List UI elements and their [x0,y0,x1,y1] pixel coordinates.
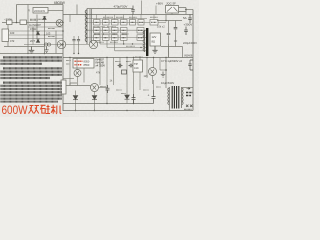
relay J1 [166,6,179,14]
protection box [73,59,94,69]
transformer T1 primary winding [86,9,88,45]
svg-text:600W: 600W [2,103,28,117]
svg-text:2CT: 2CT [30,39,35,43]
label red protect line2 [75,64,83,66]
wire x153.5 from y67.5 [153,80,155,90]
resistor R10 [138,20,144,26]
transformer T3 secondary [181,87,183,108]
small dark box [122,70,127,74]
fuse box left tall [2,29,9,42]
wire rung y38.5 [9,38,64,40]
wire top-left vertical drop [16,5,18,23]
svg-text:IN5408: IN5408 [184,54,193,58]
wire header y20.5 [157,20,182,22]
wire left vertical x8 [7,25,9,47]
box TIP41 [133,60,143,72]
wire vertical rail x63 [62,5,64,112]
label under electrodes [184,108,192,110]
wire T3 output top [182,87,193,89]
node dots on rail x63 [62,22,64,24]
node AC junction [16,22,18,24]
diode D2 mid [36,32,39,35]
instruction text block [1,57,63,101]
capacitor C1 [72,40,75,41]
node T1 bus dot [86,14,88,16]
paper noise overlay [0,0,199,117]
wire right rail x193 [192,10,194,111]
svg-text:+300V: +300V [184,23,193,27]
svg-text:5A: 5A [183,16,187,20]
resistor R6 [103,20,110,26]
wire T3 primary bottom [168,108,170,111]
label 13007 [126,45,135,47]
svg-text:8Ω: 8Ω [152,40,156,44]
capacitor C4 [121,28,128,34]
bus y110 bottom [63,110,193,112]
node dots T1 taps [86,18,87,19]
node dots rail y57 [69,57,70,58]
resistor R19 [112,35,119,41]
capacitor C11 [106,85,110,93]
wire through R1 [48,10,63,12]
wire bias y78.5 [63,78,74,80]
transistor Q5 [74,70,81,77]
node dots y53.5 [27,53,28,54]
AC terminal block 2 [20,20,27,25]
capacitor C12 [132,94,136,104]
ladder vertical x33 [32,27,34,45]
wire y85 [66,83,91,86]
transistor Q3 [149,68,157,76]
resistor R12 [94,28,101,34]
capacitor C2 [77,40,80,41]
ladder vertical x37 [36,15,38,39]
label red protect line1 [75,60,83,62]
wire to right rail [186,9,193,11]
wire rung y27 [28,26,63,28]
node dots stub bottoms [73,53,74,54]
node dots L-nest [123,43,124,44]
resistor R18 [103,35,110,41]
wire rung y31 [9,30,64,32]
wire Q4 to C11 [99,87,108,89]
wire top-left horizontal [17,4,64,6]
resistor R1 box [33,8,48,14]
node x166 y70 [165,69,167,71]
output arrow plus [187,88,191,90]
capacitor C14 right rail [188,60,193,70]
transistor Q1 [56,20,63,27]
wire relay to node [172,8,186,15]
svg-text:10k x2: 10k x2 [157,25,165,29]
ground symbol left [29,47,35,54]
wire y70 link [160,69,166,71]
svg-text:68Ω8W: 68Ω8W [54,1,65,5]
resistor R11 [150,20,158,26]
resistor R17 [94,35,101,41]
capacitor C7 [184,27,188,36]
title glyph ji [51,105,61,114]
label dashes above row A [103,16,158,18]
svg-text:220μF400V: 220μF400V [183,41,197,45]
component grid row B [94,28,145,34]
rail y57 [63,57,193,59]
transformer T2 core bar [146,28,148,56]
wire x166 down to T3 [165,58,167,89]
node relay [185,9,187,11]
branch wire x175.5 [175,21,177,47]
svg-text:41C: 41C [134,66,139,70]
transformer T1 tap y8.5 [87,8,133,10]
svg-text:470μF50V: 470μF50V [114,5,128,9]
output electrode marks [186,105,192,107]
wire rung y44.5 [24,44,63,46]
wire Q5 links [77,62,84,86]
transistor Q2b [89,40,97,48]
capacitor C13 polarized [152,90,156,104]
resistor R5 [94,20,101,26]
diode D2b [36,39,39,42]
potentiometer box [61,80,66,94]
resistor R20 [137,35,144,41]
resistor R13 [103,28,110,34]
label smudges extra [93,26,116,28]
svg-text:C7 0.1μF630V x2: C7 0.1μF630V x2 [161,59,182,63]
wire row C [87,37,146,39]
svg-text:1k5: 1k5 [144,74,149,78]
grid box value smudges [95,21,99,23]
wire Q3 drop [152,76,154,85]
wire double vertical x168.5 [168,44,170,58]
resistor R14 [112,28,119,34]
capacitor C6 right [188,15,192,24]
diode D5 [125,95,130,99]
node x166 y20.5 [165,20,167,22]
transformer T3 primary [168,87,170,108]
label above rung y22 [30,18,43,20]
svg-text:103: 103 [10,31,15,35]
ladder vertical x56 [55,31,57,54]
diode D4 [92,96,97,100]
ground symbol under T2 [152,46,157,53]
svg-text:x4 350V: x4 350V [96,64,106,68]
ladder vertical x44.5 [44,16,46,54]
wire L-nest y44 [100,40,147,51]
resistor R9 [130,20,136,26]
bus y103 [63,103,154,105]
transistor Q4 [91,84,99,92]
capacitor C3 on x133 [131,6,135,15]
stub verticals with caps x74-79 [74,36,79,54]
capacitor C9 [118,64,123,68]
ground symbol near x165 [161,72,165,78]
svg-text:+: + [148,94,150,98]
svg-text:+80V: +80V [156,2,163,6]
wire vertical x77 top [76,5,78,15]
ladder vertical x28 [27,5,29,54]
capacitor C10 [129,64,134,68]
wire y46 right link [161,47,183,58]
wire row A [87,22,166,24]
small circles pair on rung [44,43,47,46]
wire bottom-left y53.5 [0,53,63,55]
svg-text:472: 472 [10,39,15,43]
transformer T1 tap y18.5 [87,18,147,20]
wire vertical x141.5 top [141,1,143,15]
branch wire x168.5 [168,21,170,58]
wire vertical x166 [165,15,167,21]
component grid row C [94,35,145,41]
transistor Q2 [57,40,65,48]
wire AC row y22 [2,22,63,24]
capacitor C8a [167,33,171,34]
driver box 12V [150,33,161,46]
wire row B [87,29,146,31]
node dot ladder [32,30,33,31]
svg-text:10μF/630V: 10μF/630V [161,81,174,85]
verticals bottom section [70,58,160,104]
svg-text:47k: 47k [96,71,101,75]
title glyph gui [40,105,50,114]
title glyph shuang [29,106,40,114]
diode D1 top [43,17,46,20]
resistor R15 [137,28,144,34]
component grid row A [94,20,159,26]
label output dashes [186,93,193,96]
wire rung y35 [9,34,64,36]
svg-text:220Ω1W: 220Ω1W [34,9,45,13]
svg-text:JQC-3F: JQC-3F [166,2,176,6]
diode D3 [73,96,78,100]
resistor R7 [112,20,119,26]
AC terminal block 1 [7,20,13,25]
node dots y103 [106,103,107,104]
capacitor C5 [121,35,128,41]
svg-text:8550: 8550 [84,63,90,67]
wire x70 vertical [69,15,71,23]
ground symbol mid-left [44,47,48,53]
column stubs row A [97,15,154,20]
capacitor C8b [174,28,178,29]
wire between Q2 and Q2b [66,44,90,46]
transformer T3 core [172,86,179,109]
svg-text:12V: 12V [152,35,157,39]
wire +80V drop [155,6,157,15]
svg-text:TIP: TIP [134,62,138,66]
resistor R8 [121,20,128,26]
wire left bottom y46 [4,46,45,48]
wires through diodes [76,91,95,111]
svg-text:470Ω: 470Ω [30,27,36,31]
transformer T1 core [90,9,91,43]
svg-text:4x IN4007: 4x IN4007 [29,23,41,27]
transformer T2 winding [144,30,146,52]
tick on branch [174,40,177,42]
main bus y14 [63,14,193,16]
